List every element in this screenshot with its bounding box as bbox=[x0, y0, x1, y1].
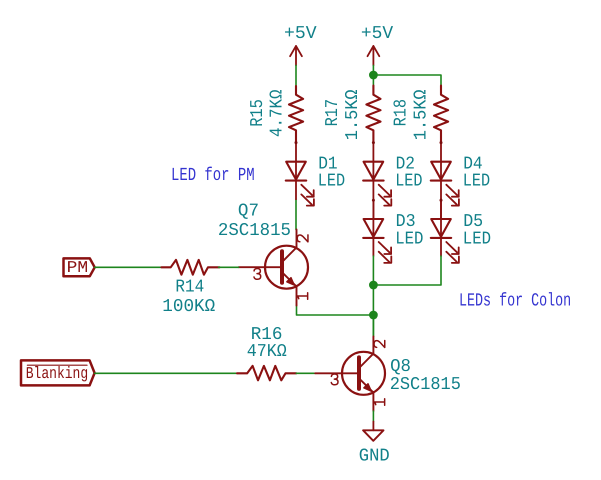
pin number 2 (Q8 collector) bbox=[374, 340, 385, 347]
LED D3 bbox=[363, 199, 423, 263]
svg-text:47KΩ: 47KΩ bbox=[247, 342, 287, 362]
svg-text:LED: LED bbox=[463, 229, 491, 249]
wire D2 cathode to D3 anode bbox=[372, 181, 374, 219]
wire R14 to Q7 base bbox=[219, 266, 239, 268]
wire junction to Q8 collector bbox=[372, 315, 374, 337]
wire Blanking to R16 bbox=[95, 372, 237, 374]
transistor Q8 bbox=[315, 337, 461, 412]
svg-text:+5V: +5V bbox=[284, 24, 317, 44]
LED D4 bbox=[431, 143, 490, 206]
LED D5 bbox=[431, 199, 491, 263]
svg-text:LED: LED bbox=[395, 229, 423, 249]
wire D1 cathode to Q7 collector bbox=[295, 199, 297, 229]
wire +5V left to R15 bbox=[295, 65, 297, 86]
pin end dot D2/D3 bbox=[372, 199, 375, 202]
svg-text:2SC1815: 2SC1815 bbox=[218, 221, 291, 241]
svg-text:R18: R18 bbox=[392, 99, 412, 127]
svg-text:R15: R15 bbox=[248, 99, 268, 127]
junction D3/D5 node bbox=[369, 281, 378, 290]
pin number 3 (Q7 base) bbox=[254, 269, 261, 280]
svg-text:LED: LED bbox=[395, 172, 422, 192]
svg-text:LED for PM: LED for PM bbox=[171, 165, 255, 186]
svg-text:2SC1815: 2SC1815 bbox=[390, 375, 461, 395]
svg-text:GND: GND bbox=[359, 446, 390, 466]
junction Q7 emitter / Q8 collector node bbox=[369, 311, 378, 320]
wire R16 to Q8 base bbox=[296, 372, 315, 374]
junction at +5V node bbox=[369, 71, 378, 80]
resistor R16 bbox=[237, 325, 296, 380]
wire D4 cathode to D5 anode bbox=[440, 181, 442, 219]
pin number 2 (Q7 collector) bbox=[297, 235, 308, 242]
hierarchical label PM bbox=[64, 258, 95, 277]
wire Q8 emitter to GND bbox=[372, 411, 374, 422]
resistor R14 bbox=[161, 260, 219, 317]
svg-text:1.5KΩ: 1.5KΩ bbox=[412, 89, 432, 140]
pin end dot D4/D5 bbox=[440, 199, 443, 202]
pin end dot R15/D1 bbox=[295, 141, 298, 144]
svg-text:R17: R17 bbox=[323, 99, 343, 127]
wire Q7 emitter to junction bbox=[297, 305, 374, 315]
resistor R17 bbox=[323, 86, 381, 143]
resistor R18 bbox=[392, 86, 448, 143]
svg-text:Q7: Q7 bbox=[238, 202, 259, 222]
pin stub D5 cathode bbox=[440, 238, 442, 256]
svg-text:1.5KΩ: 1.5KΩ bbox=[343, 89, 363, 140]
svg-text:LED: LED bbox=[318, 172, 345, 192]
pin stub D3 cathode bbox=[372, 238, 374, 256]
svg-text:Q8: Q8 bbox=[390, 357, 411, 377]
svg-text:LEDs for Colon: LEDs for Colon bbox=[459, 291, 571, 312]
pin number 3 (Q8 base) bbox=[331, 374, 338, 385]
wire +5V right to junction bbox=[372, 65, 374, 85]
svg-text:4.7KΩ: 4.7KΩ bbox=[268, 89, 288, 137]
wire junction to R18 top bbox=[373, 75, 441, 86]
wire junction to D5 cathode bbox=[373, 256, 441, 285]
svg-text:R14: R14 bbox=[175, 278, 204, 298]
pin stub D1 cathode red bbox=[295, 181, 297, 200]
pin number 1 (Q8 emitter) bbox=[374, 399, 385, 405]
hierarchical label Blanking bbox=[21, 360, 95, 385]
pin end dot R18/D4 bbox=[440, 141, 443, 144]
svg-text:100KΩ: 100KΩ bbox=[162, 297, 215, 317]
ground symbol bbox=[359, 422, 390, 467]
LED D2 bbox=[363, 143, 422, 206]
power +5V right bbox=[361, 24, 393, 65]
overline (active-low bar) bbox=[27, 364, 87, 366]
wire D3/D5 cathodes to junctions and Q8 collector bbox=[372, 256, 374, 337]
svg-text:+5V: +5V bbox=[361, 24, 393, 44]
power +5V left bbox=[284, 24, 317, 65]
svg-text:LED: LED bbox=[463, 172, 490, 192]
LED D1 bbox=[286, 143, 345, 206]
pin number 1 (Q7 emitter) bbox=[297, 293, 308, 299]
svg-text:Blanking: Blanking bbox=[26, 364, 88, 383]
svg-text:PM: PM bbox=[67, 258, 89, 277]
wire PM to R14 bbox=[95, 266, 162, 268]
pin end dot R17/D2 bbox=[372, 141, 375, 144]
transistor Q7 bbox=[218, 202, 308, 306]
resistor R15 bbox=[248, 86, 303, 143]
